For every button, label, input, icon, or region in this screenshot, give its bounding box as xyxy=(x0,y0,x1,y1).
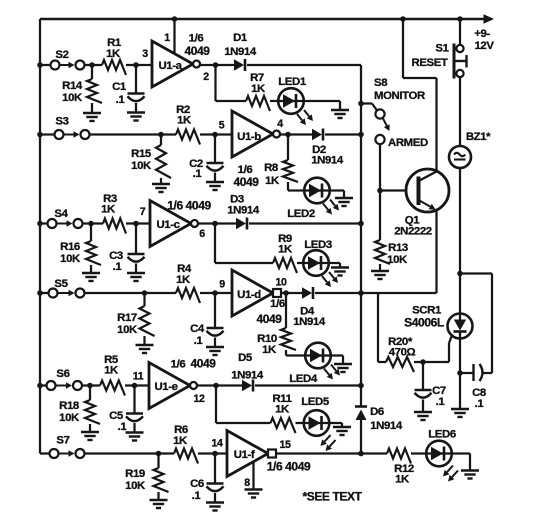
svg-text:U1-f: U1-f xyxy=(234,449,255,461)
svg-text:S4006L: S4006L xyxy=(404,316,444,330)
switch S1 RESET pushbutton xyxy=(412,43,467,79)
wire S5 to R4 xyxy=(40,290,176,296)
svg-text:S5: S5 xyxy=(54,278,68,290)
op-amp U1-c inverter xyxy=(150,201,198,247)
svg-text:1K: 1K xyxy=(395,474,410,486)
wire U1-a pin1 power xyxy=(164,16,177,54)
svg-text:R15: R15 xyxy=(131,148,152,160)
svg-text:10K: 10K xyxy=(60,253,81,265)
svg-text:R17: R17 xyxy=(117,312,137,324)
resistor R16 10K xyxy=(60,224,101,274)
node 1/6 4049 label U1-d xyxy=(256,298,284,326)
resistor R10 1K xyxy=(257,293,296,356)
svg-text:C1: C1 xyxy=(112,81,127,93)
node 1/6 4049 label U1-b xyxy=(233,164,259,189)
svg-text:10K: 10K xyxy=(117,324,138,336)
node pin 3 label xyxy=(142,48,148,60)
wire S1 to BZ1 xyxy=(459,77,461,146)
wire Q1 emitter to bus node xyxy=(361,210,437,294)
node pin 9 label xyxy=(219,279,225,291)
wire D1 to bus xyxy=(247,64,361,66)
capacitor C6 .1 xyxy=(190,454,224,511)
diode D2 1N914 xyxy=(311,129,344,167)
node 1/6 4049 label U1-e xyxy=(171,357,217,371)
svg-text:RESET: RESET xyxy=(412,57,448,69)
switch S4 xyxy=(48,208,83,228)
svg-text:1N914: 1N914 xyxy=(370,420,403,432)
resistor R5 1K xyxy=(100,354,125,396)
svg-text:3: 3 xyxy=(142,48,148,60)
svg-text:10K: 10K xyxy=(62,92,83,104)
node 1/6 4049 label U1-c xyxy=(167,199,211,213)
svg-text:10K: 10K xyxy=(59,412,80,424)
wire S4 to R3 xyxy=(40,221,103,227)
svg-text:D6: D6 xyxy=(370,406,384,418)
node ARMED label xyxy=(388,137,428,149)
wire U1-b output xyxy=(280,132,312,138)
diode D1 1N914 xyxy=(224,32,257,71)
svg-text:1/6 4049: 1/6 4049 xyxy=(267,460,311,474)
svg-text:S8: S8 xyxy=(374,77,387,89)
svg-text:1N914: 1N914 xyxy=(293,316,326,328)
svg-text:1K: 1K xyxy=(275,404,290,416)
svg-text:BZ1*: BZ1* xyxy=(466,131,491,143)
svg-text:15: 15 xyxy=(280,439,291,451)
wire LED6 to ground xyxy=(452,454,470,471)
node 1/6 4049 label U1-a xyxy=(184,33,210,59)
svg-text:LED6: LED6 xyxy=(428,429,456,441)
LED2 xyxy=(287,178,339,220)
svg-text:S2: S2 xyxy=(55,49,68,61)
resistor R14 10K xyxy=(62,65,102,113)
svg-text:10: 10 xyxy=(276,277,287,289)
wire D5 to bus xyxy=(255,384,361,386)
svg-text:12: 12 xyxy=(194,393,205,405)
svg-text:1K: 1K xyxy=(265,175,280,187)
svg-text:8: 8 xyxy=(244,477,250,489)
svg-text:U1-c: U1-c xyxy=(156,219,179,231)
node see text note xyxy=(302,490,362,504)
resistor R7 1K xyxy=(246,72,270,111)
diode D3 1N914 xyxy=(227,194,260,230)
node pin 11 label xyxy=(133,371,144,383)
node pin 8 label xyxy=(244,477,250,489)
svg-text:.1: .1 xyxy=(193,168,203,180)
op-amp U1-f inverter xyxy=(227,431,276,477)
wire LED3 to ground xyxy=(329,263,340,268)
wire U1-d output xyxy=(280,290,302,296)
wire armed to Q1 base xyxy=(377,145,416,194)
wire R6 to U1-f pin14 xyxy=(198,451,227,457)
svg-text:R19: R19 xyxy=(125,468,145,480)
svg-text:1K: 1K xyxy=(104,365,119,377)
svg-text:6: 6 xyxy=(199,228,205,240)
svg-text:4: 4 xyxy=(277,118,283,130)
op-amp U1-d inverter xyxy=(232,270,281,316)
resistor R18 10K xyxy=(59,386,100,433)
wire emitter node to R20 xyxy=(378,293,386,362)
node 1/6 4049 label U1-f xyxy=(267,460,311,474)
wire U1-f pin8 to ground xyxy=(252,462,254,490)
ground LED1 xyxy=(331,110,349,118)
wire output drop to R7 xyxy=(216,65,247,101)
node pin 10 label xyxy=(276,277,287,289)
svg-text:1N914: 1N914 xyxy=(224,46,257,58)
svg-text:C4: C4 xyxy=(190,323,205,335)
svg-text:LED3: LED3 xyxy=(304,239,332,251)
LED4 xyxy=(289,343,340,385)
svg-text:.1: .1 xyxy=(475,398,485,410)
transistor Q1 2N2222 xyxy=(394,169,449,238)
svg-text:1N914: 1N914 xyxy=(311,155,344,167)
svg-text:R8: R8 xyxy=(264,162,278,174)
node pin 7 label xyxy=(140,206,146,218)
wire R4 to U1-d pin9 xyxy=(200,290,232,296)
wire R2 to U1-b pin5 xyxy=(200,132,232,138)
svg-text:1: 1 xyxy=(164,32,170,44)
wire R12 to LED6 xyxy=(411,452,426,454)
capacitor C1 .1 xyxy=(112,65,145,121)
resistor R2 1K xyxy=(176,104,200,145)
svg-text:+9-: +9- xyxy=(474,28,490,40)
switch S7 xyxy=(50,435,85,459)
LED3 xyxy=(303,239,338,287)
svg-text:S7: S7 xyxy=(56,435,69,447)
ground LED3 xyxy=(331,268,349,276)
resistor R1 1K xyxy=(102,37,126,75)
svg-text:1/6: 1/6 xyxy=(189,33,204,45)
capacitor C8 .1 xyxy=(460,364,492,410)
node pin 12 label xyxy=(194,393,205,405)
ground R18 xyxy=(81,432,99,440)
SCR1 S4006L xyxy=(404,305,472,339)
node pin 15 label xyxy=(280,439,291,451)
wire U1-c output xyxy=(198,221,236,227)
svg-text:2N2222: 2N2222 xyxy=(394,226,432,238)
svg-text:10K: 10K xyxy=(125,480,146,492)
node pin 6 label xyxy=(199,228,205,240)
svg-text:9: 9 xyxy=(219,279,225,291)
resistor R12 1K xyxy=(387,449,414,486)
LED6 xyxy=(426,429,458,482)
svg-text:R16: R16 xyxy=(60,241,80,253)
ground LED2 xyxy=(335,198,353,206)
wire R1 to U1-a pin3 xyxy=(126,62,152,68)
ground LED6 xyxy=(461,471,479,479)
svg-text:U1-b: U1-b xyxy=(237,131,261,143)
svg-text:U1-e: U1-e xyxy=(154,381,177,393)
svg-text:12V: 12V xyxy=(474,40,494,52)
switch S8 monitor/armed xyxy=(361,104,390,145)
op-amp U1-a inverter xyxy=(152,41,200,87)
svg-text:10K: 10K xyxy=(131,160,152,172)
svg-text:470Ω: 470Ω xyxy=(389,347,416,359)
svg-text:.1: .1 xyxy=(194,335,204,347)
node S8 MONITOR label xyxy=(374,77,425,102)
wire LED2 to ground xyxy=(330,191,344,199)
svg-text:R14: R14 xyxy=(62,80,83,92)
ground R19 xyxy=(150,500,168,508)
wire R8 to LED2 xyxy=(288,189,304,191)
diode D5 1N914 xyxy=(231,352,264,392)
wire C8 to anode node xyxy=(460,274,492,374)
wire output drop to R11 xyxy=(216,386,271,424)
resistor R4 1K xyxy=(176,263,200,303)
capacitor C2 .1 xyxy=(189,135,224,191)
svg-text:1K: 1K xyxy=(278,244,293,256)
wire R7 to LED1 xyxy=(270,100,278,102)
resistor R11 1K xyxy=(271,393,296,433)
wire output drop to R9 xyxy=(215,224,273,264)
wire U1-e output xyxy=(197,383,242,389)
node pin 2 label xyxy=(203,71,209,83)
svg-text:1K: 1K xyxy=(173,435,188,447)
svg-text:MONITOR: MONITOR xyxy=(374,90,425,102)
node +9-12V supply label xyxy=(474,28,494,52)
svg-text:1K: 1K xyxy=(262,344,277,356)
ground LED5 xyxy=(333,427,351,435)
wire S2 to R1 xyxy=(40,62,102,68)
wire R11 to LED5 xyxy=(296,422,304,424)
svg-text:*SEE TEXT: *SEE TEXT xyxy=(302,490,362,504)
wire SCR anode xyxy=(459,274,461,314)
op-amp U1-e inverter xyxy=(149,363,197,409)
svg-text:1K: 1K xyxy=(106,48,121,60)
wire Q1 collector to rail xyxy=(400,16,436,171)
svg-text:LED5: LED5 xyxy=(301,396,330,408)
svg-text:7: 7 xyxy=(140,206,146,218)
svg-text:.1: .1 xyxy=(118,421,128,433)
wire S7 to R6 xyxy=(40,451,174,457)
svg-text:4049: 4049 xyxy=(190,357,216,371)
ground R14 xyxy=(83,113,101,121)
node pin 5 label xyxy=(219,120,225,132)
svg-text:4049: 4049 xyxy=(233,175,259,189)
resistor R17 10K xyxy=(117,293,154,345)
resistor R8 1K xyxy=(264,135,298,191)
ground R16 xyxy=(82,273,100,281)
wire S6 to R5 xyxy=(40,383,100,389)
wire rail to S1 xyxy=(457,16,463,44)
switch S6 xyxy=(47,368,83,390)
svg-text:1K: 1K xyxy=(101,204,116,216)
svg-text:S4: S4 xyxy=(54,208,68,220)
ground LED4 xyxy=(334,364,352,372)
resistor R15 10K xyxy=(131,135,171,185)
wire R10 to LED4 xyxy=(286,354,305,356)
wire D4 to bus xyxy=(315,292,361,294)
resistor R6 1K xyxy=(173,424,198,464)
wire R5 to U1-e pin11 xyxy=(125,383,149,389)
capacitor C4 .1 xyxy=(190,293,224,355)
ground R17 xyxy=(136,345,154,353)
wire BZ1 to SCR anode xyxy=(457,168,463,276)
svg-text:R13: R13 xyxy=(388,242,408,254)
svg-text:1K: 1K xyxy=(176,274,191,286)
capacitor C3 .1 xyxy=(109,224,145,282)
diode D6 1N914 xyxy=(355,406,403,432)
wire R20 to SCR gate xyxy=(414,337,452,365)
wire S3 to R2 xyxy=(40,132,176,138)
resistor R9 1K xyxy=(273,233,297,273)
svg-text:4049: 4049 xyxy=(184,44,210,58)
capacitor C7 .1 xyxy=(414,362,446,420)
ground R13 xyxy=(371,271,389,279)
wire D6 to LED6 row xyxy=(360,420,362,454)
op-amp U1-b inverter xyxy=(232,111,280,157)
svg-text:10K: 10K xyxy=(387,254,408,266)
svg-text:1/6 4049: 1/6 4049 xyxy=(167,199,211,213)
resistor R19 10K xyxy=(125,454,168,501)
node pin 14 label xyxy=(212,438,223,450)
svg-text:LED2: LED2 xyxy=(287,208,315,220)
svg-text:S6: S6 xyxy=(56,368,69,380)
switch S2 xyxy=(51,49,85,70)
svg-text:U1-d: U1-d xyxy=(237,289,261,301)
wire top power rail xyxy=(40,14,494,24)
wire SCR cathode to ground xyxy=(457,339,463,410)
resistor R20 470 xyxy=(386,336,416,372)
diode D4 1N914 xyxy=(293,287,326,328)
wire R3 to U1-c pin7 xyxy=(126,221,150,227)
wire D2 to bus xyxy=(325,133,361,135)
ground SCR cathode xyxy=(451,409,469,417)
svg-text:.1: .1 xyxy=(192,490,202,502)
ground R15 xyxy=(152,184,170,192)
switch S3 xyxy=(55,116,90,140)
wire R9 to LED3 xyxy=(297,262,303,264)
svg-text:.1: .1 xyxy=(436,396,446,408)
svg-text:1/6: 1/6 xyxy=(171,359,186,371)
LED5 xyxy=(301,396,335,451)
svg-text:1K: 1K xyxy=(251,83,266,95)
svg-text:.1: .1 xyxy=(113,261,123,273)
switch S5 xyxy=(49,278,85,298)
capacitor C5 .1 xyxy=(109,386,143,441)
svg-text:1K: 1K xyxy=(177,115,192,127)
svg-text:1/6: 1/6 xyxy=(270,298,285,310)
wire U1-f output row xyxy=(275,451,387,457)
svg-text:S1: S1 xyxy=(435,43,449,55)
wire LED4 to ground xyxy=(331,356,343,365)
wire left input bus xyxy=(37,19,43,454)
svg-text:D5: D5 xyxy=(238,352,253,364)
svg-text:U1-a: U1-a xyxy=(158,60,182,72)
wire LED5 to ground xyxy=(329,423,342,427)
svg-text:LED4: LED4 xyxy=(289,373,318,385)
wire LED1 to ground xyxy=(304,101,340,110)
svg-text:.1: .1 xyxy=(116,94,126,106)
wire diode bus xyxy=(358,65,364,406)
svg-text:C6: C6 xyxy=(190,478,204,490)
svg-text:LED1: LED1 xyxy=(278,76,307,88)
svg-text:D1: D1 xyxy=(233,32,248,44)
svg-text:1N914: 1N914 xyxy=(227,205,260,217)
node pin 4 label xyxy=(277,118,283,130)
svg-text:S3: S3 xyxy=(55,116,68,128)
ground U1-f pin8 xyxy=(245,490,263,498)
svg-text:R18: R18 xyxy=(59,400,79,412)
svg-text:ARMED: ARMED xyxy=(388,137,428,149)
svg-text:11: 11 xyxy=(133,371,144,383)
wire U1-a output xyxy=(200,62,234,68)
svg-text:14: 14 xyxy=(212,438,223,450)
buzzer BZ1 xyxy=(449,131,491,168)
svg-text:2: 2 xyxy=(203,71,209,83)
resistor R13 10K xyxy=(375,191,408,272)
LED1 xyxy=(278,76,313,125)
svg-text:1N914: 1N914 xyxy=(231,370,264,382)
svg-text:5: 5 xyxy=(219,120,225,132)
wire D3 to bus xyxy=(249,222,361,224)
resistor R3 1K xyxy=(101,193,126,234)
svg-text:4049: 4049 xyxy=(256,312,282,326)
